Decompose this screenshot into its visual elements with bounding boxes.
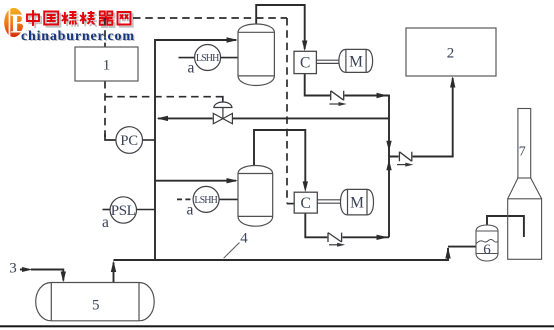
wire main vertical header [154, 39, 156, 260]
arrow down into V5 [61, 272, 66, 283]
svg-text:5: 5 [92, 298, 100, 314]
svg-text:a: a [102, 214, 109, 231]
check valve CV1 [331, 91, 344, 100]
instrument LSHH1 [195, 45, 221, 71]
wire feed to vessel V2 [155, 180, 236, 182]
wire bottom header [114, 247, 477, 260]
svg-text:C: C [300, 55, 310, 72]
lead LSHH2 to V2 [219, 198, 237, 200]
vessel V5 [36, 283, 155, 321]
arrow into V2 [227, 178, 239, 183]
level squiggle V6 [476, 239, 497, 243]
dashed signal box1 to PC [104, 81, 106, 137]
arrow down on header B [386, 141, 391, 152]
motor M1 [339, 49, 373, 72]
vessel V2 [238, 166, 273, 227]
logo chinese text 中国燃烧器网 [27, 10, 133, 28]
lead LSHH1 to V1 [221, 57, 238, 59]
lead PSL left [103, 209, 111, 211]
dashed signal to control valve [105, 96, 223, 98]
arrow up below junction [386, 160, 391, 171]
compressor C2 [294, 192, 317, 213]
lead PC to header [143, 139, 155, 141]
control valve [213, 102, 232, 124]
svg-text:4: 4 [240, 231, 248, 247]
wire recycle line [158, 117, 389, 119]
svg-text:M: M [350, 195, 364, 212]
arrow into V1 [227, 37, 239, 42]
shaft C2-M2 [317, 200, 343, 203]
vessel V1 [238, 24, 274, 86]
vessel V6 [476, 225, 498, 261]
wire V1 top to compressor C1 [256, 5, 305, 49]
dashed bend into PC [105, 134, 116, 140]
svg-text:chinaburner.com: chinaburner.com [21, 29, 134, 44]
logo url chinaburner.com [21, 29, 136, 45]
svg-text:1: 1 [103, 58, 111, 74]
check valve CV3 [328, 233, 342, 242]
instrument PSL [110, 197, 136, 223]
flow arrow CV1 [329, 102, 346, 106]
dashed lead LSHH2 [177, 198, 192, 200]
dashed signal top horizontal [133, 17, 287, 19]
svg-text:a: a [187, 202, 194, 219]
bottom border line [0, 325, 554, 327]
svg-text:2: 2 [447, 46, 455, 62]
arrow stream 3 [22, 267, 33, 272]
dashed signal vertical to compressor C2 [286, 18, 288, 204]
arrow left recycle [157, 116, 169, 121]
instrument PC [116, 127, 143, 154]
dashed bend into C2 [287, 203, 294, 205]
instrument LSHH2 [193, 186, 219, 212]
svg-text:LSHH: LSHH [196, 53, 220, 64]
flow arrow CV3 [329, 243, 345, 247]
wire to box 2 [389, 78, 453, 157]
wire C2 discharge [305, 213, 389, 237]
compressor C1 [294, 51, 316, 73]
wire stream 3 inlet [20, 270, 63, 281]
wire V2 top to compressor C2 [254, 130, 305, 187]
svg-text:7: 7 [519, 145, 526, 160]
lead LSHH1 left [179, 57, 195, 59]
svg-text:LSHH: LSHH [194, 195, 218, 206]
arrow down into C1 [302, 41, 307, 52]
arrow up V5 out [111, 261, 116, 273]
arrow down into C2 [303, 181, 308, 192]
svg-text:C: C [301, 195, 311, 212]
dashed signal box1 top [104, 18, 106, 47]
motor M2 [341, 189, 374, 215]
shaft C1-M1 [316, 60, 340, 63]
svg-text:6: 6 [483, 242, 491, 258]
wire V6 to stack [487, 216, 524, 237]
box 1 [75, 47, 138, 81]
arrow right into header B low [377, 235, 389, 240]
dashed drop to valve actuator [222, 96, 224, 104]
flow arrow CV2 [397, 163, 413, 167]
lead PSL to header [137, 209, 155, 211]
logo mark B [4, 8, 28, 39]
svg-text:M: M [349, 54, 363, 71]
wire feed to vessel V1 [155, 39, 236, 41]
box 2 [406, 28, 496, 76]
check valve CV2 [399, 152, 411, 161]
svg-text:3: 3 [9, 261, 17, 277]
leader line for label 4 [224, 243, 240, 259]
arrow right before header B [377, 93, 389, 98]
arrow up into box 2 [450, 76, 455, 88]
svg-text:PSL: PSL [111, 203, 136, 219]
svg-text:PC: PC [120, 133, 138, 149]
wire C1 discharge [305, 74, 389, 238]
flare stack 7 [508, 109, 542, 260]
svg-text:a: a [188, 60, 195, 77]
arrow up to V6 line [445, 247, 450, 259]
wire V5 vapor out [113, 263, 115, 283]
